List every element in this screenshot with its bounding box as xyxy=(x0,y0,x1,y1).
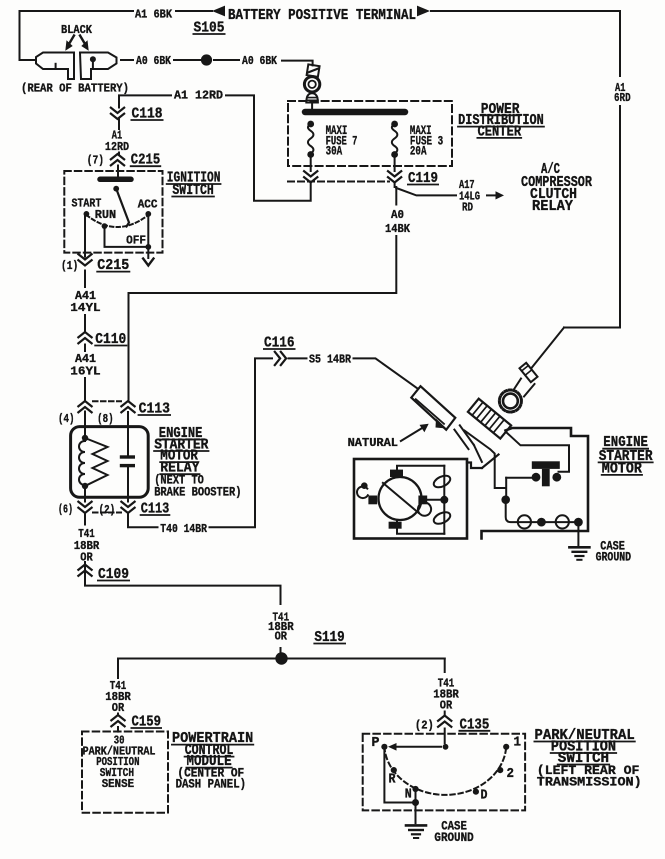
svg-text:OR: OR xyxy=(275,630,288,644)
svg-text:(1): (1) xyxy=(61,259,78,273)
svg-text:A0 6BK: A0 6BK xyxy=(136,54,172,68)
svg-text:(6): (6) xyxy=(58,502,73,516)
svg-text:RD: RD xyxy=(462,201,473,215)
svg-text:2: 2 xyxy=(507,766,515,782)
svg-text:OR: OR xyxy=(112,701,125,715)
svg-text:(2): (2) xyxy=(415,718,434,732)
svg-text:A1 6BK: A1 6BK xyxy=(135,8,173,22)
svg-text:SENSE: SENSE xyxy=(102,777,134,791)
svg-text:(2): (2) xyxy=(99,503,116,517)
svg-text:(8): (8) xyxy=(97,412,114,426)
svg-text:S5 14BR: S5 14BR xyxy=(309,353,352,367)
svg-text:BLACK: BLACK xyxy=(61,23,93,37)
svg-text:A0 6BK: A0 6BK xyxy=(242,54,278,68)
svg-text:BRAKE BOOSTER): BRAKE BOOSTER) xyxy=(154,486,241,500)
svg-text:1: 1 xyxy=(514,735,522,751)
svg-text:RUN: RUN xyxy=(95,208,117,222)
svg-text:D: D xyxy=(481,788,488,804)
svg-text:14YL: 14YL xyxy=(70,301,100,315)
svg-text:16YL: 16YL xyxy=(70,365,100,379)
svg-text:OR: OR xyxy=(440,699,453,713)
svg-text:R: R xyxy=(389,772,396,788)
svg-text:GROUND: GROUND xyxy=(434,831,474,845)
svg-text:BATTERY POSITIVE TERMINAL: BATTERY POSITIVE TERMINAL xyxy=(228,7,416,24)
svg-text:A0: A0 xyxy=(391,208,404,222)
svg-text:(4): (4) xyxy=(58,412,75,426)
svg-text:N: N xyxy=(405,787,412,803)
svg-text:(REAR OF BATTERY): (REAR OF BATTERY) xyxy=(21,82,129,96)
svg-text:T40 14BR: T40 14BR xyxy=(160,522,207,536)
svg-text:RELAY: RELAY xyxy=(532,198,573,215)
svg-text:GROUND: GROUND xyxy=(596,550,632,564)
svg-text:TRANSMISSION): TRANSMISSION) xyxy=(537,776,642,790)
svg-text:OR: OR xyxy=(80,551,93,565)
svg-text:6RD: 6RD xyxy=(614,91,631,105)
svg-text:12RD: 12RD xyxy=(105,140,129,154)
svg-text:14BK: 14BK xyxy=(385,222,411,236)
svg-text:A1 12RD: A1 12RD xyxy=(174,89,223,103)
svg-text:P: P xyxy=(372,735,380,751)
svg-text:20A: 20A xyxy=(410,144,427,159)
svg-text:30A: 30A xyxy=(326,144,343,159)
svg-text:ACC: ACC xyxy=(138,197,158,211)
svg-text:OFF: OFF xyxy=(126,234,146,248)
svg-text:DASH PANEL): DASH PANEL) xyxy=(176,778,246,792)
svg-text:NATURAL: NATURAL xyxy=(348,436,398,450)
